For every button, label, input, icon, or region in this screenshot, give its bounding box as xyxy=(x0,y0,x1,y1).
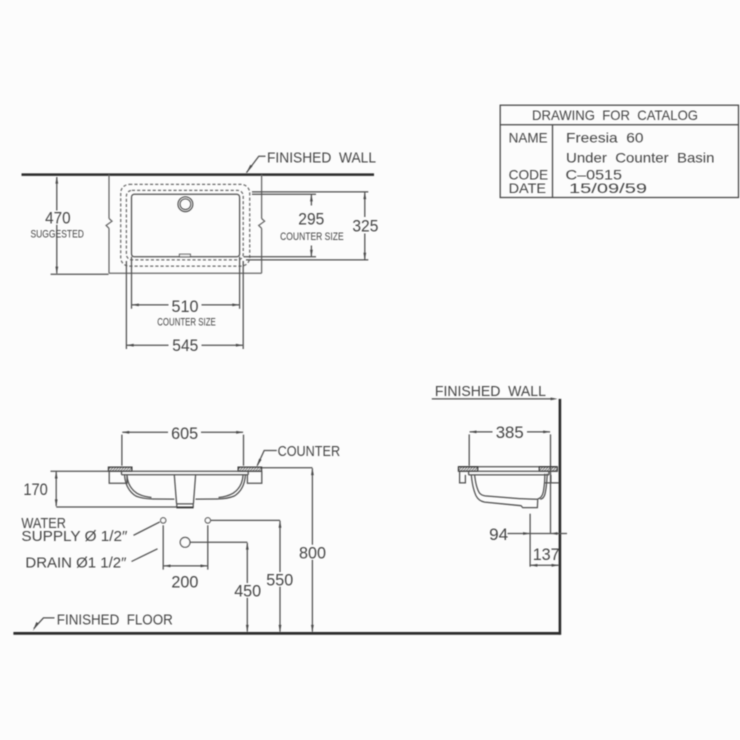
extension lines right of basin (295/325 top) xyxy=(252,192,368,194)
svg-text:COUNTER SIZE: COUNTER SIZE xyxy=(280,231,344,243)
faucet hole outer circle xyxy=(178,197,193,212)
basin flange (side) xyxy=(469,471,549,475)
extension line 470 bottom xyxy=(51,273,109,275)
dimension line 385 xyxy=(470,431,550,433)
svg-text:450: 450 xyxy=(234,581,261,600)
dimension 170 xyxy=(51,470,109,472)
dimension line 510 xyxy=(132,304,239,306)
finished wall line (plan) xyxy=(22,173,375,176)
svg-text:94: 94 xyxy=(489,525,508,544)
dimension 470 SUGGESTED xyxy=(56,177,58,273)
bowl inner wall left (front) xyxy=(127,475,152,498)
dimension line 550 xyxy=(279,521,281,632)
counter edge build-down left xyxy=(109,471,127,483)
counter left edge (plan) with break xyxy=(108,175,110,274)
extension lines 545 xyxy=(126,261,243,349)
counter cut block left (side, hatched) xyxy=(458,467,477,471)
bowl outer wall + drain stub (side) xyxy=(471,475,537,508)
extension lines 200 xyxy=(163,525,208,569)
svg-text:510: 510 xyxy=(172,297,199,316)
bowl inner wall right (front) xyxy=(219,475,244,498)
water supply hole left xyxy=(161,518,166,523)
leader FINISHED FLOOR xyxy=(34,618,55,629)
svg-text:137: 137 xyxy=(533,545,560,564)
extension lines 510 xyxy=(132,257,240,309)
dimension line 545 xyxy=(127,344,243,346)
table header separator xyxy=(500,124,738,126)
extension lines right of basin (295/325 bottom) xyxy=(244,257,369,260)
svg-text:FINISHED FLOOR: FINISHED FLOOR xyxy=(57,611,173,628)
svg-text:200: 200 xyxy=(171,573,198,592)
svg-text:170: 170 xyxy=(23,480,48,499)
svg-text:385: 385 xyxy=(496,423,524,442)
finished floor line xyxy=(13,632,561,635)
table border xyxy=(500,105,738,197)
counter cut block right (hatched) xyxy=(238,467,262,471)
counter right edge (plan) with break xyxy=(261,175,263,274)
svg-text:FINISHED WALL: FINISHED WALL xyxy=(435,383,546,400)
drain stub (front) xyxy=(177,504,193,507)
svg-text:DATE: DATE xyxy=(509,180,546,196)
leader FINISHED WALL (plan) xyxy=(247,156,266,172)
svg-text:Under Counter Basin: Under Counter Basin xyxy=(566,150,715,166)
dimension line 94 xyxy=(508,533,568,535)
dimension line 450 xyxy=(246,543,248,632)
dimension line 137 xyxy=(531,564,559,566)
leader water supply xyxy=(134,522,160,535)
svg-text:SUGGESTED: SUGGESTED xyxy=(30,229,84,241)
drain pillar (front) xyxy=(174,475,195,504)
svg-text:SUPPLY Ø 1/2″: SUPPLY Ø 1/2″ xyxy=(21,528,128,545)
extension line 550 (supply level) xyxy=(211,519,280,521)
faucet hole inner circle xyxy=(180,199,191,210)
counter cut block right (side, hatched) xyxy=(539,467,557,471)
basin flange (front) xyxy=(122,471,249,475)
svg-text:470: 470 xyxy=(45,209,71,228)
extension lines 605 xyxy=(122,435,244,466)
water supply hole right xyxy=(205,518,210,523)
svg-text:15/09/59: 15/09/59 xyxy=(569,180,647,196)
bowl outer wall right (front) xyxy=(196,475,246,499)
overflow notch (plan bottom center) xyxy=(179,254,190,257)
basin rim hidden line (middle dashed rounded rect) xyxy=(126,190,243,260)
counter cut block left (hatched) xyxy=(108,467,131,471)
svg-text:NAME: NAME xyxy=(509,129,548,145)
basin outer rim hidden line (outer dashed rounded rect) xyxy=(121,184,250,266)
bowl inner wall (side) xyxy=(475,474,545,500)
counter edge build-down left (side) xyxy=(460,471,466,483)
drain extension line (side) xyxy=(529,514,531,567)
svg-text:COUNTER: COUNTER xyxy=(278,443,341,460)
counter edge build-down right (side) xyxy=(545,475,559,483)
extension lines 385 xyxy=(469,434,550,533)
dimension line 200 xyxy=(164,565,208,567)
counter bottom edge (plan) xyxy=(109,272,262,274)
drain hole circle (front) xyxy=(180,537,190,547)
svg-text:FINISHED WALL: FINISHED WALL xyxy=(267,150,376,167)
bowl outer wall right (side) xyxy=(540,474,547,499)
FINISHED WALL underline + arrow xyxy=(432,398,552,400)
dimension 325 vertical xyxy=(364,192,366,260)
svg-text:325: 325 xyxy=(352,216,378,235)
counter underside line xyxy=(109,470,262,472)
svg-text:545: 545 xyxy=(172,336,198,355)
svg-text:550: 550 xyxy=(266,570,293,589)
table column divider xyxy=(552,125,554,198)
bowl outer wall left (front) xyxy=(125,475,175,499)
leader drain xyxy=(132,549,158,562)
leader COUNTER xyxy=(257,451,277,466)
extension line 450 (drain level) xyxy=(190,541,247,543)
svg-text:800: 800 xyxy=(299,543,326,562)
svg-text:DRAWING FOR CATALOG: DRAWING FOR CATALOG xyxy=(532,107,698,123)
svg-text:605: 605 xyxy=(171,424,198,443)
counter top line (side) xyxy=(458,466,557,468)
dimension line 800 xyxy=(311,468,313,632)
extension line 800 (counter level) xyxy=(262,467,312,469)
svg-text:295: 295 xyxy=(298,209,324,228)
wall line (side) xyxy=(559,399,562,635)
svg-text:COUNTER SIZE: COUNTER SIZE xyxy=(157,317,216,329)
svg-text:Freesia 60: Freesia 60 xyxy=(566,129,644,145)
counter cutout edge (inner solid rounded rect) xyxy=(132,194,240,257)
counter underside line (side) xyxy=(458,470,557,472)
counter edge build-down right xyxy=(247,471,261,483)
dimension line 605 xyxy=(122,431,243,433)
svg-text:DRAIN Ø1 1/2″: DRAIN Ø1 1/2″ xyxy=(25,554,127,571)
dimension 295 vertical stubs xyxy=(310,195,312,257)
